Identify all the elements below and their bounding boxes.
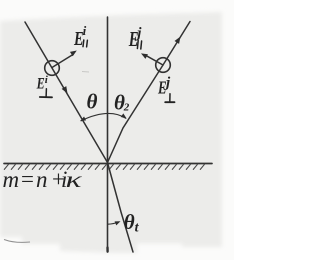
svg-text:θ: θ bbox=[124, 210, 135, 234]
svg-text:=: = bbox=[20, 167, 36, 192]
svg-text:E: E bbox=[36, 75, 45, 93]
svg-text:i: i bbox=[83, 23, 87, 38]
svg-text:θ: θ bbox=[87, 89, 98, 113]
svg-text:κ: κ bbox=[66, 167, 83, 193]
svg-text:j: j bbox=[135, 26, 142, 42]
svg-text:m: m bbox=[3, 167, 20, 192]
svg-text:j: j bbox=[164, 75, 171, 91]
svg-text:2: 2 bbox=[123, 102, 130, 114]
svg-text:n: n bbox=[36, 167, 48, 192]
